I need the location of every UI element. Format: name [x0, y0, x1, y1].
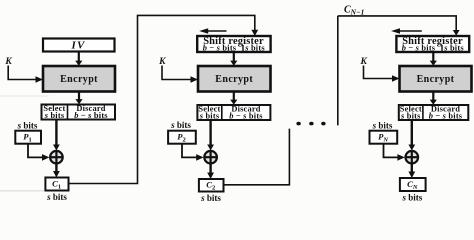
svg-text:s bits: s bits [400, 111, 421, 120]
svg-text:s bits: s bits [402, 193, 423, 203]
block Encrypt2 [198, 66, 271, 92]
xor XOR3 [406, 151, 419, 164]
svg-text:b − s bits: b − s bits [429, 111, 463, 120]
wire ShiftRegister3 to Encrypt3 [430, 52, 437, 66]
block Encrypt1 [43, 66, 115, 92]
svg-text:Encrypt: Encrypt [417, 74, 455, 85]
wire K1 to Encrypt1 [8, 66, 43, 83]
wire Encrypt3 to SelectDiscard3 [430, 92, 437, 105]
box C2 [199, 179, 224, 192]
svg-text:s bits: s bits [44, 111, 65, 120]
svg-text:K: K [360, 57, 368, 67]
box IV [43, 39, 115, 52]
box PN [370, 131, 398, 144]
xor XOR2 [204, 151, 217, 164]
wire XOR3 to CN [408, 164, 415, 179]
wire SelectDiscard2 to XOR2 [207, 120, 214, 151]
arrow shift-direction 3 [391, 28, 422, 34]
wire P1 to XOR1 [28, 144, 49, 161]
wire top feedback to ShiftRegister3 [338, 16, 460, 36]
wire K2 to Encrypt2 [162, 66, 198, 83]
ellipsis dots [296, 122, 325, 126]
block SelectDiscard3 [399, 105, 469, 121]
svg-text:b − s bits: b − s bits [203, 44, 237, 53]
svg-text:s bits: s bits [170, 120, 191, 130]
wire feedback C1 to ShiftRegister2 [69, 15, 259, 183]
svg-text:IV: IV [70, 40, 85, 52]
wire ShiftRegister2 to Encrypt2 [230, 52, 237, 66]
svg-text:s bits: s bits [372, 121, 393, 131]
box P1 [15, 131, 41, 144]
svg-text:Encrypt: Encrypt [215, 74, 253, 85]
wire XOR2 to C2 [207, 164, 214, 180]
wire P2 to XOR2 [182, 144, 204, 161]
box CN [400, 178, 426, 191]
xor XOR1 [50, 151, 63, 164]
block SelectDiscard1 [42, 104, 116, 120]
box P2 [168, 131, 196, 144]
box C1 [45, 178, 68, 191]
wire SelectDiscard1 to XOR1 [53, 120, 60, 151]
svg-text:s bits: s bits [199, 111, 220, 120]
faint scan artifact line below Encrypt1 [0, 95, 49, 97]
svg-text:K: K [4, 57, 12, 67]
block ShiftRegister2 [197, 36, 270, 53]
svg-text:K: K [158, 57, 166, 67]
wire Encrypt1 to SelectDiscard1 [75, 92, 82, 105]
svg-text:b − s bits: b − s bits [229, 111, 263, 120]
wire IV to Encrypt1 [75, 52, 82, 66]
wire SelectDiscard3 to XOR3 [408, 120, 415, 151]
faint scan artifact line left of C1 [0, 190, 44, 192]
svg-text:Encrypt: Encrypt [60, 74, 98, 85]
svg-text:b − s bits: b − s bits [402, 44, 436, 53]
wire from ellipsis up to top line [337, 16, 339, 126]
svg-text:s bits: s bits [200, 193, 221, 203]
svg-text:s bits: s bits [46, 192, 67, 202]
arrow shift-direction 2 [199, 28, 226, 34]
wire PN to XOR3 [384, 144, 405, 161]
wire XOR1 to C1 [53, 164, 60, 178]
svg-text:s bits: s bits [443, 44, 464, 53]
block SelectDiscard2 [197, 105, 270, 121]
wire C2 output toward ellipsis [224, 129, 290, 185]
svg-text:s bits: s bits [244, 44, 265, 53]
svg-text:s bits: s bits [17, 121, 38, 131]
block Encrypt3 [400, 66, 472, 92]
block ShiftRegister3 [396, 36, 469, 53]
wire Encrypt2 to SelectDiscard2 [230, 92, 237, 105]
wire K3 to Encrypt3 [364, 66, 400, 82]
svg-text:b − s bits: b − s bits [74, 111, 108, 120]
